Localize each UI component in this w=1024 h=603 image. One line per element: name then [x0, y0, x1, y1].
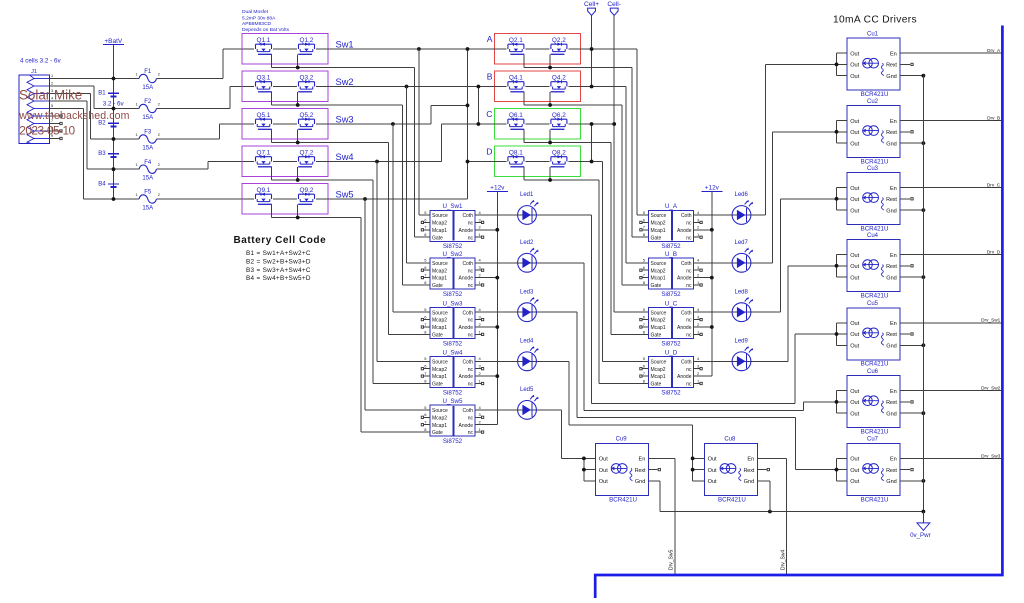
LED Led5 [518, 387, 539, 419]
gate driver IC U_Sw5 Si8752 [421, 398, 484, 445]
svg-text:Out: Out [708, 468, 717, 474]
junction Cu3 bus [835, 197, 839, 201]
svg-text:BCR421U: BCR421U [861, 361, 889, 368]
svg-text:Si8752: Si8752 [661, 291, 681, 298]
battery B3 [98, 151, 119, 157]
wire Cu7 En [900, 457, 1002, 459]
svg-text:Gnd: Gnd [886, 275, 897, 281]
junction cell rails [590, 47, 594, 51]
wire Cu5 En [900, 322, 1002, 324]
svg-text:U_Sw1: U_Sw1 [443, 203, 464, 210]
junction B gate [548, 103, 552, 107]
svg-text:U_A: U_A [665, 203, 678, 210]
svg-text:Anode: Anode [677, 325, 692, 331]
transistor Q8.1 [508, 157, 524, 162]
wire Sw4 out [316, 161, 442, 163]
LED Led7 [732, 240, 753, 272]
svg-text:Gnd: Gnd [886, 344, 897, 350]
svg-text:Anode: Anode [459, 423, 474, 429]
svg-text:Q8.2: Q8.2 [552, 149, 566, 156]
wire Sw4 jog to even net [441, 124, 443, 162]
svg-text:2: 2 [51, 82, 53, 86]
junction Cu6 bus [835, 400, 839, 404]
transistor Q1.2 [299, 44, 315, 49]
svg-text:B4 = Sw4+B+Sw5+D: B4 = Sw4+B+Sw5+D [246, 275, 311, 282]
port Cell+ [588, 8, 596, 15]
switch module box Q9.1/Q9.2 [242, 184, 328, 215]
fuse F4 [133, 160, 164, 182]
svg-text:Led6: Led6 [735, 192, 749, 198]
transistor Q4.1 [508, 82, 524, 87]
svg-text:En: En [890, 186, 897, 192]
svg-text:Mcap1: Mcap1 [432, 276, 447, 282]
switch module box Q2.1/Q2.2 [494, 34, 580, 65]
junction Sw5 gate [296, 216, 300, 220]
wire U_B cathode to Led7 [693, 262, 742, 264]
svg-text:Sw2: Sw2 [336, 77, 354, 87]
switch module box Q3.1/Q3.2 [242, 71, 328, 102]
wire Led6 to Cu1 [742, 214, 766, 216]
svg-text:Coth: Coth [681, 310, 692, 316]
junction Cu7 gnd [922, 479, 926, 483]
wire Cu1 Rext stub [900, 63, 910, 65]
svg-text:Out: Out [850, 321, 859, 327]
wire gate stubs [271, 167, 273, 180]
svg-text:BCR421U: BCR421U [609, 496, 637, 503]
svg-text:Sw4: Sw4 [336, 152, 354, 162]
wire Cu2 out bus [836, 121, 838, 144]
wire Cu9 Rext stub [648, 469, 657, 471]
svg-text:Rext: Rext [886, 264, 897, 270]
svg-text:Cu6: Cu6 [867, 369, 879, 375]
transistor Q9.2 [299, 194, 315, 199]
svg-text:Led5: Led5 [520, 387, 534, 393]
svg-text:Led2: Led2 [520, 240, 534, 246]
svg-text:1: 1 [136, 133, 138, 137]
wire Cu4 Rext stub [900, 265, 910, 267]
svg-text:Gate: Gate [651, 333, 662, 339]
svg-text:Si8752: Si8752 [661, 389, 681, 396]
svg-text:2: 2 [158, 102, 160, 106]
wire Cu3 Gnd [900, 209, 923, 211]
svg-text:nc: nc [686, 382, 692, 388]
wire Cu8 Rext stub [757, 469, 766, 471]
transistor Q6.1 [508, 119, 524, 124]
svg-text:Anode: Anode [677, 228, 692, 234]
svg-text:Cu4: Cu4 [867, 233, 879, 239]
wire Sw5 out [316, 198, 468, 200]
wire node1 to F2 [114, 108, 133, 110]
wire node2 to F3 [114, 138, 133, 140]
svg-text:Mcap2: Mcap2 [651, 268, 666, 274]
wire B source sense [625, 87, 627, 263]
wire C row in [478, 123, 506, 125]
svg-text:B3: B3 [98, 151, 106, 157]
junction A gate [548, 66, 552, 70]
wire drain-drain inner [273, 48, 297, 50]
svg-text:Anode: Anode [677, 276, 692, 282]
svg-text:+12v: +12v [490, 185, 505, 192]
svg-text:F1: F1 [144, 69, 152, 75]
LED driver Cu5 BCR421U [847, 301, 900, 368]
wire gate stubs [271, 54, 273, 67]
svg-text:Mcap2: Mcap2 [432, 221, 447, 227]
svg-text:Coth: Coth [681, 213, 692, 219]
svg-text:Led9: Led9 [735, 339, 749, 345]
junction +12v rail right [710, 228, 714, 232]
gate driver IC U_A Si8752 [640, 203, 703, 250]
svg-text:Gate: Gate [432, 430, 443, 436]
wire Cu2 En [900, 120, 1002, 122]
junction Cu8 bus [691, 457, 695, 461]
gate driver IC U_Sw2 Si8752 [421, 251, 484, 298]
svg-text:15A: 15A [142, 176, 153, 182]
junction Cu2 bus [835, 130, 839, 134]
wire gate stubs [271, 204, 273, 217]
svg-text:Mcap2: Mcap2 [432, 318, 447, 324]
svg-text:Source: Source [432, 310, 448, 316]
junction battery nodes [112, 77, 116, 81]
wire gnd rail vertical [922, 76, 924, 512]
fuse F2 [133, 99, 164, 121]
svg-text:Mcap2: Mcap2 [651, 221, 666, 227]
junction Sw2 gate [296, 103, 300, 107]
battery B2 [98, 121, 119, 127]
wire Cu8 En down [757, 457, 786, 459]
wire gate stubs [523, 92, 525, 105]
svg-text:1: 1 [136, 163, 138, 167]
svg-text:Cu1: Cu1 [867, 32, 879, 38]
svg-text:Si8752: Si8752 [443, 389, 463, 396]
wire drain-drain inner [273, 198, 297, 200]
svg-text:Mcap1: Mcap1 [651, 374, 666, 380]
svg-text:En: En [890, 389, 897, 395]
wire D gate bus [524, 179, 599, 181]
wire drain-drain inner [525, 86, 549, 88]
svg-text:Drv_Sw1: Drv_Sw1 [981, 318, 1000, 323]
svg-text:Out: Out [850, 468, 859, 474]
gate driver IC U_C Si8752 [640, 300, 703, 347]
connector J1 [19, 69, 53, 143]
battery B4 [98, 181, 119, 187]
svg-text:Si8752: Si8752 [661, 340, 681, 347]
junction Sw4 gate [296, 178, 300, 182]
svg-text:Out: Out [850, 197, 859, 203]
svg-text:B3 = Sw3+A+Sw4+C: B3 = Sw3+A+Sw4+C [246, 267, 311, 274]
svg-text:Coth: Coth [462, 310, 473, 316]
wire C gate bus [524, 142, 611, 144]
svg-text:nc: nc [468, 221, 474, 227]
svg-text:A: A [487, 34, 493, 44]
transistor Q2.2 [551, 44, 567, 49]
transistor Q9.1 [256, 194, 272, 199]
svg-text:Drv_Sw3: Drv_Sw3 [981, 453, 1000, 458]
wire Cu3 Rext stub [900, 198, 910, 200]
svg-text:Q1.1: Q1.1 [257, 37, 271, 44]
svg-text:Out: Out [850, 389, 859, 395]
wire U_C cathode to Led8 [693, 311, 742, 313]
svg-text:Si8752: Si8752 [443, 291, 463, 298]
svg-text:Source: Source [651, 359, 667, 365]
svg-text:Gate: Gate [432, 283, 443, 289]
junction switch rows [417, 47, 421, 51]
wire J1 pin1 to battery top [50, 78, 114, 80]
svg-text:U_C: U_C [665, 300, 678, 307]
wire Sw1 source sense [418, 49, 420, 215]
wire Sw3 gate bus [272, 142, 389, 144]
svg-text:15A: 15A [142, 115, 153, 121]
gate driver IC U_Sw4 Si8752 [421, 349, 484, 396]
svg-text:Cu8: Cu8 [724, 437, 736, 443]
svg-text:U_Sw3: U_Sw3 [443, 300, 464, 307]
svg-text:Q9.1: Q9.1 [257, 187, 271, 194]
wire Sw1 gate bus [272, 67, 415, 69]
svg-text:Si8752: Si8752 [661, 243, 681, 250]
LED Led6 [732, 192, 753, 224]
svg-text:www.thebackshed.com: www.thebackshed.com [18, 110, 129, 122]
svg-text:Source: Source [651, 213, 667, 219]
svg-text:Mcap2: Mcap2 [432, 415, 447, 421]
svg-text:U_Sw4: U_Sw4 [443, 349, 464, 356]
svg-text:BCR421U: BCR421U [861, 159, 889, 166]
wire Cu9 out bus [583, 458, 585, 481]
wire battery top to F1 [114, 78, 133, 80]
wire Cu1 En [900, 52, 1002, 54]
wire U_Sw1 cathode to Led1 [475, 214, 527, 216]
svg-text:Mcap1: Mcap1 [432, 374, 447, 380]
svg-text:5: 5 [51, 104, 53, 108]
svg-text:Drv_A: Drv_A [987, 48, 1001, 53]
transistor Q7.1 [256, 157, 272, 162]
switch module box Q6.1/Q6.2 [494, 109, 580, 140]
svg-text:nc: nc [686, 235, 692, 241]
transistor Q2.1 [508, 44, 524, 49]
wire A gate bus [524, 67, 632, 69]
LED Led2 [518, 240, 539, 272]
wire Cu5 out bus [836, 323, 838, 346]
wire Cu8 out bus [692, 425, 694, 481]
wire Led4 to Cu8 [527, 360, 569, 362]
transistor Q3.1 [256, 82, 272, 87]
wire Cell+ vertical [591, 15, 593, 87]
svg-text:Anode: Anode [459, 228, 474, 234]
junction Cu1 gnd [922, 74, 926, 78]
wire U_Sw5 anode [475, 424, 497, 426]
wire Cu1 Gnd [900, 75, 923, 77]
svg-text:Mcap1: Mcap1 [651, 276, 666, 282]
gate driver IC U_Sw1 Si8752 [421, 203, 484, 250]
svg-text:Rext: Rext [886, 468, 897, 474]
wire Sw3 source sense [392, 124, 394, 312]
wire C out to Cell- [568, 123, 614, 125]
svg-text:B1 = Sw1+A+Sw2+C: B1 = Sw1+A+Sw2+C [246, 250, 311, 257]
svg-text:Cu3: Cu3 [867, 166, 879, 172]
svg-text:Out: Out [850, 253, 859, 259]
junction Cu2 gnd [922, 141, 926, 145]
note dual mosfet info [242, 9, 290, 33]
svg-text:Gate: Gate [432, 235, 443, 241]
svg-text:0v_Pwr: 0v_Pwr [910, 532, 931, 539]
svg-text:Rext: Rext [886, 63, 897, 69]
wire Cu3 En [900, 187, 1002, 189]
wire U_C anode [693, 326, 712, 328]
svg-text:nc: nc [468, 235, 474, 241]
wire Sw2 source sense [406, 87, 408, 263]
svg-text:Out: Out [850, 141, 859, 147]
svg-text:Coth: Coth [462, 408, 473, 414]
wire Cu9 En down [648, 457, 675, 459]
wire Cu2 Gnd [900, 142, 923, 144]
svg-text:nc: nc [468, 382, 474, 388]
svg-text:Sw5: Sw5 [336, 190, 354, 200]
svg-text:Mcap2: Mcap2 [651, 318, 666, 324]
wire gate stubs [271, 92, 273, 105]
svg-text:nc: nc [686, 221, 692, 227]
wire node3 to F4 [114, 168, 133, 170]
svg-text:Q2.1: Q2.1 [509, 37, 523, 44]
svg-text:Drv_B: Drv_B [987, 116, 1000, 121]
wire F3 to Sw3 [163, 138, 219, 140]
wire +BatV stem [113, 45, 115, 79]
wire drain-drain inner [525, 161, 549, 163]
svg-text:Mcap2: Mcap2 [432, 268, 447, 274]
svg-text:2: 2 [158, 72, 160, 76]
transistor Q1.1 [256, 44, 272, 49]
svg-text:Mcap1: Mcap1 [651, 325, 666, 331]
transistor Q5.2 [299, 119, 315, 124]
junction D gate [548, 178, 552, 182]
wire D out [568, 161, 602, 163]
wire gate stubs [523, 129, 525, 142]
svg-text:Drv_D: Drv_D [987, 250, 1001, 255]
svg-text:nc: nc [686, 283, 692, 289]
wire U_A cathode to Led6 [693, 214, 742, 216]
power symbol 0v_Pwr [910, 512, 931, 540]
svg-text:Out: Out [850, 130, 859, 136]
svg-text:Out: Out [708, 457, 717, 463]
svg-text:Led7: Led7 [735, 240, 749, 246]
junction Cu5 bus [835, 332, 839, 336]
LED driver Cu7 BCR421U [847, 437, 900, 504]
note cell code lines [246, 250, 311, 282]
wire Cu6 Gnd [900, 412, 923, 414]
LED driver Cu3 BCR421U [847, 166, 900, 233]
wire J1 pin4 to node B3-B4 [50, 100, 88, 102]
wire F5 to Sw5 [163, 198, 254, 200]
svg-text:Q6.2: Q6.2 [552, 112, 566, 119]
hierarchical sheet edge [595, 26, 1002, 599]
svg-text:Mcap1: Mcap1 [651, 228, 666, 234]
wire D row in [468, 161, 507, 163]
svg-text:BCR421U: BCR421U [861, 429, 889, 436]
svg-text:Sw3: Sw3 [336, 115, 354, 125]
svg-text:Cu9: Cu9 [616, 437, 628, 443]
svg-text:Out: Out [850, 344, 859, 350]
wire F1 to Sw1 [163, 78, 223, 80]
wire Sw3 jog to odd net [430, 105, 432, 124]
wire Cu9 gnd [648, 480, 660, 482]
wire Sw5 gate bus [272, 217, 361, 219]
svg-text:Out: Out [850, 186, 859, 192]
svg-text:Dual Mosfet: Dual Mosfet [242, 9, 269, 15]
svg-text:C: C [486, 109, 492, 119]
wire Cu3 out bus [836, 188, 838, 211]
wire U_Sw1 anode [475, 229, 497, 231]
svg-text:nc: nc [686, 318, 692, 324]
wire Led7 to Cu2 [742, 262, 773, 264]
LED Led1 [518, 192, 539, 224]
wire gnd rail horizontal [660, 511, 924, 513]
svg-text:BCR421U: BCR421U [861, 293, 889, 300]
svg-text:Q1.2: Q1.2 [300, 37, 314, 44]
svg-text:F2: F2 [144, 99, 152, 105]
wire C source sense from Cell- [613, 15, 615, 312]
LED driver Cu2 BCR421U [847, 99, 900, 166]
wire Sw5 source sense [364, 199, 366, 410]
svg-text:Out: Out [599, 457, 608, 463]
svg-text:Mcap2: Mcap2 [432, 367, 447, 373]
svg-text:Cell-: Cell- [607, 1, 621, 8]
wire U_Sw3 anode [475, 326, 497, 328]
junction Cu7 bus [835, 468, 839, 472]
svg-text:Mcap1: Mcap1 [432, 325, 447, 331]
svg-text:Q4.2: Q4.2 [552, 74, 566, 81]
junction Cu6 gnd [922, 411, 926, 415]
svg-text:En: En [890, 253, 897, 259]
svg-text:BCR421U: BCR421U [718, 496, 746, 503]
svg-text:B: B [487, 72, 493, 82]
wire odd net vertical [467, 49, 469, 199]
wire Sw3 out [316, 123, 431, 125]
svg-text:Anode: Anode [459, 276, 474, 282]
wire drain-drain inner [525, 123, 549, 125]
svg-text:Gnd: Gnd [886, 411, 897, 417]
wire +12v rail left [496, 191, 498, 424]
wire A out [568, 48, 637, 50]
svg-text:En: En [890, 51, 897, 57]
wire Sw1 row to A [316, 48, 506, 50]
wire Cu6 Rext stub [900, 401, 910, 403]
svg-text:2: 2 [158, 193, 160, 197]
wire Led9 to Cu4 [742, 360, 789, 362]
wire battery stack [113, 79, 115, 200]
transistor Q3.2 [299, 82, 315, 87]
svg-text:Out: Out [850, 457, 859, 463]
wire Cu2 Rext stub [900, 131, 910, 133]
svg-text:Q7.2: Q7.2 [300, 149, 314, 156]
LED Led8 [732, 289, 753, 321]
svg-text:+BatV: +BatV [104, 38, 123, 45]
svg-text:Q2.2: Q2.2 [552, 37, 566, 44]
svg-text:Gnd: Gnd [886, 141, 897, 147]
transistor Q6.2 [551, 119, 567, 124]
svg-text:En: En [747, 457, 754, 463]
svg-text:Out: Out [599, 468, 608, 474]
svg-text:B1: B1 [98, 91, 106, 97]
junction Cu3 gnd [922, 208, 926, 212]
svg-text:Q6.1: Q6.1 [509, 112, 523, 119]
wire Cu7 Rext stub [900, 469, 910, 471]
wire B gate bus [524, 104, 622, 106]
svg-text:Drv_Sw4: Drv_Sw4 [780, 549, 786, 570]
svg-text:Cell+: Cell+ [584, 1, 599, 8]
svg-text:U_B: U_B [665, 251, 677, 258]
svg-text:En: En [639, 457, 646, 463]
wire Sw4 source sense [376, 162, 378, 362]
wire +12v rail right [711, 191, 713, 376]
svg-text:Q5.2: Q5.2 [300, 112, 314, 119]
svg-text:Gate: Gate [432, 333, 443, 339]
